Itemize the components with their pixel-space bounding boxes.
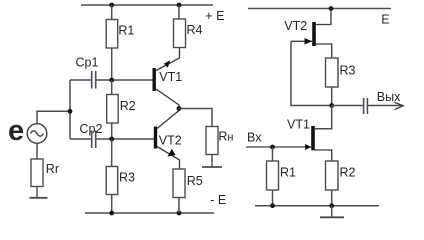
wire: rail to R4 [178,5,180,19]
wire: bottom rail (right) [255,205,379,207]
svg-text:R2: R2 [340,166,356,180]
source lead [316,44,332,58]
svg-text:- E: - E [210,193,226,207]
source e (AC) [8,115,47,147]
svg-text:Rr: Rr [46,162,59,176]
wire: cap to output arrow [368,105,403,107]
svg-text:Cp1: Cp1 [76,56,99,70]
node: rail/VT2 drain [329,6,334,11]
wire: R1 to base node [111,48,113,80]
node: rail/R1 junction [109,3,114,8]
wire: output junction to Rn [179,109,212,127]
node: rail/R1 [270,203,275,208]
capacitor Cp2 [92,131,96,149]
resistor R5 [173,169,185,198]
svg-text:Rн: Rн [218,130,233,144]
collector lead to output [156,89,179,109]
wire: input to Cp2 [70,138,91,140]
wire: node2 to R3 [111,139,113,167]
ground under Rr [30,187,48,198]
sine symbol [31,131,44,136]
capacitor (output) [364,98,368,114]
drain lead [316,9,332,25]
wire: gate feedback loop [291,41,332,105]
resistor Rn [206,127,218,155]
resistor R2 [107,95,119,124]
ground under Rn [202,155,222,168]
svg-text:R3: R3 [340,64,356,78]
transistor VT1 (npn, emitter up) [154,48,179,109]
gate lead with arrow [246,146,311,148]
svg-text:VT1: VT1 [287,118,310,132]
capacitor Cp1 [92,71,96,89]
resistor R3 [106,167,118,195]
ground (right) [320,206,344,218]
node: input junction [68,109,73,114]
transistor VT2 (FET, right) [291,9,332,59]
svg-text:VT1: VT1 [159,70,182,84]
transistor VT2 (pnp, emitter down) [156,109,180,170]
output arrow [395,102,404,109]
svg-text:Вх: Вх [247,131,262,145]
svg-text:R5: R5 [187,174,203,188]
node: input/R1 junction [270,145,275,150]
resistor R2 (right) [326,161,339,190]
resistor R3 (right) [326,58,339,87]
base bar [152,68,155,91]
node: VT1 base node [109,78,114,83]
wire: node to R2 [111,80,113,95]
wire: R3 to bottom rail [111,195,113,214]
wire: source bottom to Rr [36,143,38,159]
svg-text:Вых: Вых [377,90,401,104]
node: bottom rail/R3 [109,211,114,216]
wire: Cp1 to base node [96,79,152,81]
resistor Rr [31,159,43,187]
wire: R5 to bottom rail [178,198,180,214]
node: rail/R4 junction [177,3,182,8]
channel bar [312,22,316,46]
collector lead to output junction [157,109,179,129]
svg-text:R1: R1 [280,166,296,180]
svg-text:+ E: + E [205,9,224,23]
resistor R1 [106,20,118,49]
svg-text:R2: R2 [120,99,136,113]
resistor R1 (right) [267,161,279,190]
wire: source top to input node [37,111,70,123]
svg-text:R4: R4 [187,23,203,37]
svg-text:VT2: VT2 [159,133,182,147]
wire: input node to R1 [272,147,274,161]
node: rail/R2 [329,203,334,208]
node: bottom rail/R5 [177,211,182,216]
wire: Cp2 to base node2 [96,138,154,140]
wire: -E bottom rail [85,212,214,214]
channel bar [311,126,315,150]
wire: R2 to node2 [111,123,113,139]
emitter lead with arrow to R5 [157,147,180,170]
source lead [315,150,332,161]
wire: output node down to VT1 drain [315,106,332,129]
transistor VT1 (FET, right) [246,126,332,161]
node: output node [329,103,334,108]
wire: input to Cp1 [70,79,91,81]
svg-text:VT2: VT2 [284,19,307,33]
svg-text:E: E [381,12,389,26]
node: output junction [177,106,182,111]
svg-text:e: e [8,115,24,147]
AC source circle [27,124,47,144]
wire: output node to cap [332,105,363,107]
emitter lead with arrow to R4 [156,48,180,71]
wire: R2 to bottom rail [331,190,333,206]
wire: R1 to bottom rail [272,190,274,206]
wire: rail to R1 [111,5,113,20]
wire: R3 to output node [331,87,333,106]
svg-text:R1: R1 [118,24,134,38]
node: VT2 base node [109,137,114,142]
wire: E top rail [248,8,391,10]
base bar [154,127,157,149]
wire: input vertical (Cp1 to Cp2) [69,80,71,139]
resistor R4 [174,19,186,48]
gate lead with arrow [291,40,312,42]
svg-text:R3: R3 [119,171,135,185]
wire: +E top rail [81,4,213,6]
